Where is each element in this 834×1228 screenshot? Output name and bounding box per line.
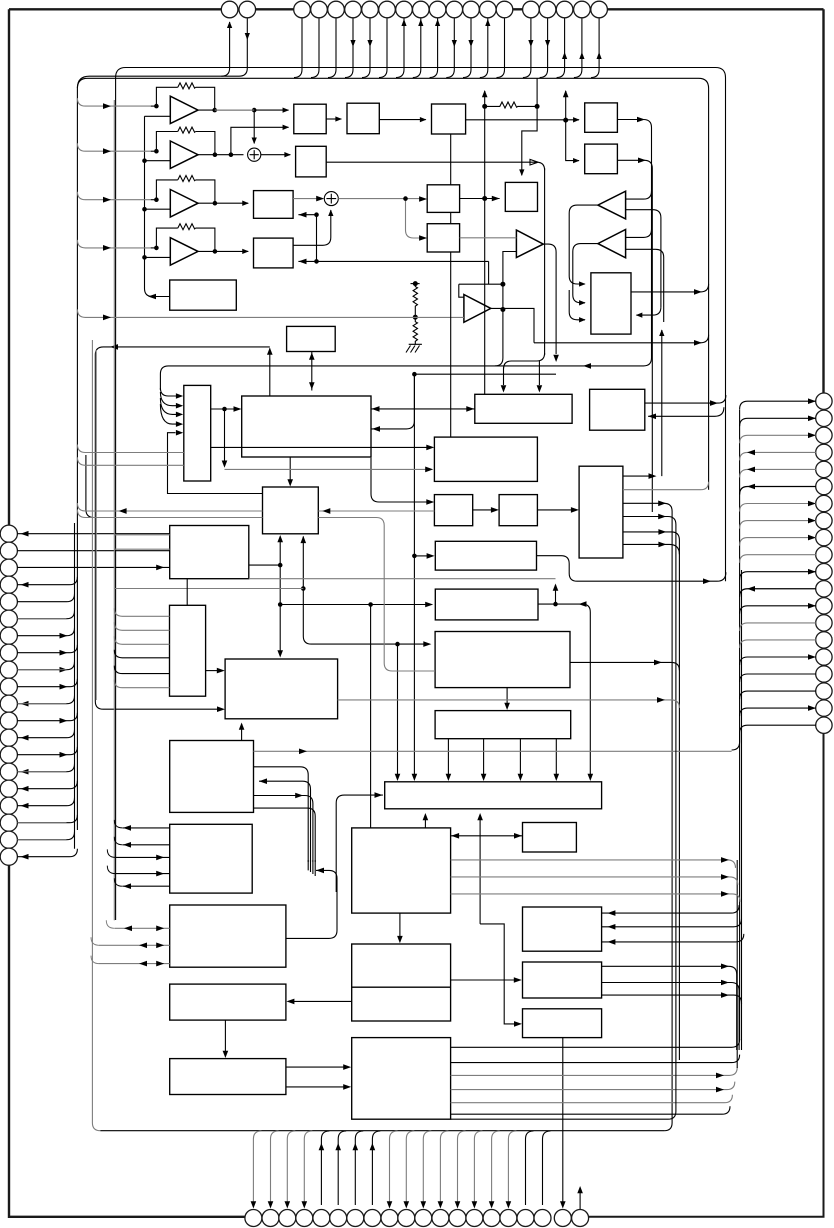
op-amp A2 (170, 141, 198, 168)
block U36 (352, 944, 451, 1021)
left pin in-arrows (21, 633, 68, 860)
wire into U11 right edge (636, 307, 661, 315)
block U5 (254, 191, 294, 219)
grey U14 left inputs (114, 535, 169, 549)
U20 out3 (623, 503, 672, 1130)
wire U22 bottom bus to vertical (249, 578, 556, 580)
grey bus 511 seg1 (77, 503, 262, 511)
fan arc 1 (160, 388, 178, 396)
U11 out to R2 vertical (631, 284, 709, 292)
block U41 (170, 1059, 286, 1095)
arrowhead into bus from U7 (148, 294, 156, 300)
branch up to bus from U3 line (565, 91, 567, 120)
vertical x397.5 down to U30 (397, 644, 399, 776)
wire U3 out east (466, 119, 579, 121)
U28 four verticals down to U30 (448, 739, 556, 777)
block U24 (435, 589, 538, 620)
bus 346.9 to west then down (95, 347, 269, 709)
dots mid (222, 162, 558, 646)
bottom stub arrowheads down (251, 1143, 512, 1209)
grey 588.5 bus (114, 588, 303, 590)
U29 top vertical up into U27 (241, 724, 243, 741)
U37 right outputs to bundle (602, 966, 737, 1050)
wire A3 out to U5 (198, 202, 248, 204)
T7 out branch down to bus1 (495, 310, 503, 366)
U30 left input wire (336, 795, 383, 892)
fan arc 4 (160, 404, 178, 424)
grey bus into U13 at 465.3 (77, 457, 183, 465)
U23 out route up R1 (537, 556, 726, 582)
U39 down to bottom pin (562, 1038, 564, 1204)
block U3 (432, 104, 466, 134)
inverting tap A3 (145, 208, 171, 210)
vertical resistor R6 (413, 284, 417, 317)
top pin stubs group C (523, 19, 599, 78)
op-amp A2 feedback loop (156, 132, 215, 155)
op-amp A1 feedback loop with resistor (156, 87, 214, 110)
summing junction S2 (324, 192, 338, 206)
U40 right outputs bottom bundle (451, 1039, 740, 1047)
input wire ch4 (77, 240, 150, 248)
U26 right out east (570, 662, 679, 670)
A8 input arc (626, 229, 652, 237)
fan arc 2 (160, 392, 178, 406)
block U10 (505, 182, 537, 211)
grey bus 517.5 seg1 (77, 510, 262, 518)
inverting tap A2 (145, 160, 171, 162)
wire U22 pin lines (17, 533, 169, 535)
right bundle verticals (739, 410, 741, 1041)
U25 out to U27 (206, 670, 220, 672)
U36 left to U38 (292, 1000, 352, 1002)
grey A5 input bus (77, 309, 464, 317)
U22 right out to link vertical (249, 564, 280, 566)
input wire ch3 (77, 192, 150, 200)
bottom pin row (245, 1210, 589, 1227)
third input arc into U11 (569, 290, 585, 320)
wire A1 out to U1 (198, 109, 289, 111)
page border left (8, 9, 10, 525)
U3 bottom vertical to U17 top (450, 134, 452, 437)
vertical x480 up into U30 (480, 815, 517, 1024)
vertical U14 down to U21 (289, 457, 291, 482)
wire U6 out up into S2 (293, 210, 331, 245)
top-left pin bus (77, 76, 239, 88)
wire A2 branch up to U1 second input (231, 127, 289, 154)
block U15 (475, 394, 572, 423)
buffer amp A5 (464, 295, 491, 323)
wire B4 out bus east (326, 159, 544, 170)
grey bus from junction to U17 (225, 468, 429, 470)
U29 out2 bundle down (254, 767, 309, 862)
block U8 (585, 103, 618, 132)
block U39 (523, 1009, 602, 1038)
block U17 (434, 437, 537, 481)
U20 out2 grey (623, 482, 709, 490)
U24 out east then down to U30 (538, 604, 590, 776)
block U6 (254, 238, 294, 268)
resistor R1 (178, 83, 196, 89)
wire U8 out then down to A7 (617, 120, 651, 366)
block U10b (427, 224, 459, 252)
block U28 (435, 711, 571, 739)
vertical up from U14 into bus 346.9 (269, 349, 271, 397)
wire U5 out to S2 (293, 198, 322, 200)
resistor R3 (178, 176, 196, 182)
page border left lower (9, 865, 245, 1217)
U23 left arrow from bus2 vertical (414, 555, 429, 557)
vertical up into U21 bottom (303, 537, 426, 645)
wire U1 to U2 (326, 118, 341, 120)
wire A5 output (491, 308, 534, 342)
top pin row (221, 1, 607, 18)
isolated stub pin 580 (579, 1188, 581, 1209)
wire down-left into U15 top stubs (504, 353, 545, 385)
op-amp A3 feedback loop (156, 180, 215, 203)
vertical from U20 up arrow (661, 330, 663, 476)
U33-U31 double arrow (451, 835, 523, 837)
block U21 (263, 487, 319, 534)
inverting tap A4 (145, 256, 171, 258)
wire A5 out east bus (534, 335, 709, 343)
U19 to U20 (537, 509, 573, 511)
summing junction S1 (248, 148, 261, 161)
bus2 corner at x414 (414, 374, 556, 776)
page border right lower (589, 733, 824, 1216)
block U30 (385, 782, 602, 809)
T8 amp output wire (543, 244, 556, 354)
U26 down to U28 (506, 688, 508, 706)
left pin column (0, 525, 17, 865)
U18 to U19 (473, 509, 494, 511)
block U23 (435, 541, 536, 570)
T7 feedback network (459, 252, 517, 310)
A7 input arc from vertical (626, 191, 652, 199)
block U38 (170, 984, 286, 1020)
branch down from U13 output (224, 409, 226, 463)
grey overrides: some left pin lines grey (17, 619, 66, 840)
top pin stubs group B (294, 19, 505, 78)
wire S2 out to U10 (338, 198, 421, 200)
left pins 5-20 arcs into bundle (17, 594, 77, 857)
fan arc 3 (160, 398, 178, 414)
op-amp A4 feedback loop (156, 228, 215, 251)
U40 bottom corner wire (451, 525, 676, 1120)
block U25 (170, 605, 206, 696)
left pin4 wire to bundle (17, 577, 77, 585)
arc wire into U14 right at 428.9 (372, 374, 415, 429)
block U33 (352, 828, 451, 913)
op-amp A1 (170, 96, 198, 123)
grey out A1 east (215, 109, 255, 111)
block U4 (296, 146, 327, 177)
U13 output2 to U17 (211, 446, 429, 448)
resistor R2 (178, 127, 196, 133)
wire A4 out to U6 (198, 250, 248, 252)
top stub up-arrowheads (245, 19, 602, 59)
U16 vertical link U12-U14 (311, 352, 313, 391)
top stub down-arrowheads (245, 33, 551, 47)
U29 out3 (254, 796, 313, 863)
block U14 (242, 396, 371, 457)
wire into U16 right (648, 407, 724, 416)
double arrow vertical U21-U27 (279, 537, 281, 653)
wire feedback into U6 right edge (298, 261, 488, 284)
A8 lower line to vertical x663.7 (626, 249, 664, 322)
block U18 (434, 495, 472, 526)
grey bus 517.5 seg2 (318, 518, 435, 672)
block U26 (435, 632, 570, 688)
block U13 (184, 385, 211, 481)
grey verticals left bundle (92, 340, 100, 1131)
U29 out4 (254, 808, 316, 862)
vertical with up arrow into 578.7 (555, 585, 557, 604)
junction dots top (142, 104, 568, 320)
U25 fan inputs (114, 608, 169, 644)
vertical resistor R7 (413, 317, 417, 345)
input wire ch2 (77, 143, 150, 151)
page border right (822, 9, 824, 393)
block U37 (523, 962, 602, 998)
U33 top up arrow into U30 (424, 815, 426, 828)
ring wire R2 top (77, 78, 708, 830)
U20 out6 (623, 544, 680, 554)
block U10a (427, 185, 459, 213)
U20 out4 (623, 517, 676, 525)
block U31 (523, 823, 577, 853)
inverting input bus (145, 116, 171, 296)
wire into U5 right edge (298, 215, 316, 262)
resistor R4 (178, 224, 196, 230)
page border top segments (9, 8, 824, 10)
U36 right to U37 (451, 979, 517, 981)
U38 down to U41 (224, 1020, 226, 1053)
block U34 (170, 905, 286, 967)
right pin arcs with arrows (740, 401, 816, 409)
block U27 (225, 659, 338, 719)
series resistor R5 (485, 102, 537, 108)
bus1 left fan into U13 (160, 366, 643, 390)
wire S1 to U4 (260, 154, 291, 156)
U41 to U40 wires (286, 1067, 346, 1087)
buffer amp A7 (left-pointing) (598, 191, 626, 219)
bottom stub arrowheads up mid (319, 1143, 376, 1150)
resistor chain top tick (411, 283, 420, 285)
block U35 (523, 907, 602, 951)
U25 top vertical (186, 579, 188, 606)
wire into U26 left (423, 641, 431, 647)
U34 left wires (99, 928, 170, 963)
wire from U21 up into U13 fifth input (168, 433, 263, 494)
U20 right outputs going up (623, 475, 654, 477)
right pin column (816, 393, 832, 733)
block U16 (590, 389, 645, 430)
U35 z-wire from U30? vertical x590 done. U35 right inputs (602, 905, 740, 913)
buffer amp A6 (516, 230, 543, 257)
vertical x370.6 down from dot (370, 605, 372, 828)
wire back into U29 (259, 781, 311, 862)
grey T8 input bus (460, 237, 517, 239)
block U20 (579, 466, 623, 558)
U32 left wires (116, 828, 170, 886)
input wire ch1 (77, 98, 150, 106)
A7 lower line to vertical x661 (626, 210, 661, 307)
wire U9 out down (617, 160, 652, 512)
block U9 (585, 144, 618, 174)
wire down to U9 (566, 120, 579, 161)
wire A1 out branch down to S1 (253, 110, 255, 143)
wire from U27 right to bundle (338, 700, 680, 708)
grey bus 511 seg2 (318, 510, 434, 512)
bundle continues to bottom join (308, 860, 315, 876)
wire U2 to U3 (379, 119, 426, 121)
bottom edge long wire (100, 1130, 664, 1132)
ring wire R1 top (116, 68, 726, 921)
last right pin wire goes down then west (732, 725, 816, 750)
block U11 (591, 273, 631, 334)
A8 output to left then down (573, 244, 598, 303)
wire A2 out to S1 (198, 154, 244, 156)
U16 out to R1 vertical (645, 395, 726, 403)
block U22 (170, 526, 249, 579)
wires from U33 right to far bundle (451, 860, 736, 868)
horizontal from link to U24 (280, 604, 429, 606)
bottom pin stubs (253, 1131, 312, 1205)
A7 output to left then down (569, 205, 598, 284)
B15 corner wire to U18 (371, 458, 429, 502)
block U32 (170, 824, 253, 893)
U15 left input double arrow from U14 (371, 408, 475, 410)
grey bus into U13 at 452.5 (77, 445, 183, 453)
ground symbol (406, 344, 422, 352)
buffer amp A8 (left-pointing) (598, 230, 626, 258)
node vertical x537.1 (522, 78, 537, 175)
U33 down arrow to U36 (399, 913, 401, 938)
U29 right bus to pin20 row east (254, 750, 732, 752)
left bundle vertical c (74, 523, 76, 849)
left bundle vertical d (86, 455, 94, 518)
U13 output to U14 (211, 408, 237, 410)
wire from U34 up-left arrow (286, 870, 337, 938)
wire top pin1 arc (221, 22, 229, 76)
op-amp A3 (170, 190, 198, 218)
block U40 (352, 1038, 451, 1120)
op-amp A4 (170, 238, 198, 266)
block U2 (347, 103, 379, 134)
U20 out5 (623, 532, 680, 1060)
block U7 (170, 280, 237, 310)
block U12 (287, 326, 336, 351)
block U29 (170, 741, 254, 813)
block U1 (294, 104, 326, 134)
node vertical x484.7 resistor A (484, 91, 486, 199)
wire top pin2 arc (239, 19, 247, 77)
block U36 divider (352, 986, 451, 988)
block U19 (499, 495, 537, 526)
